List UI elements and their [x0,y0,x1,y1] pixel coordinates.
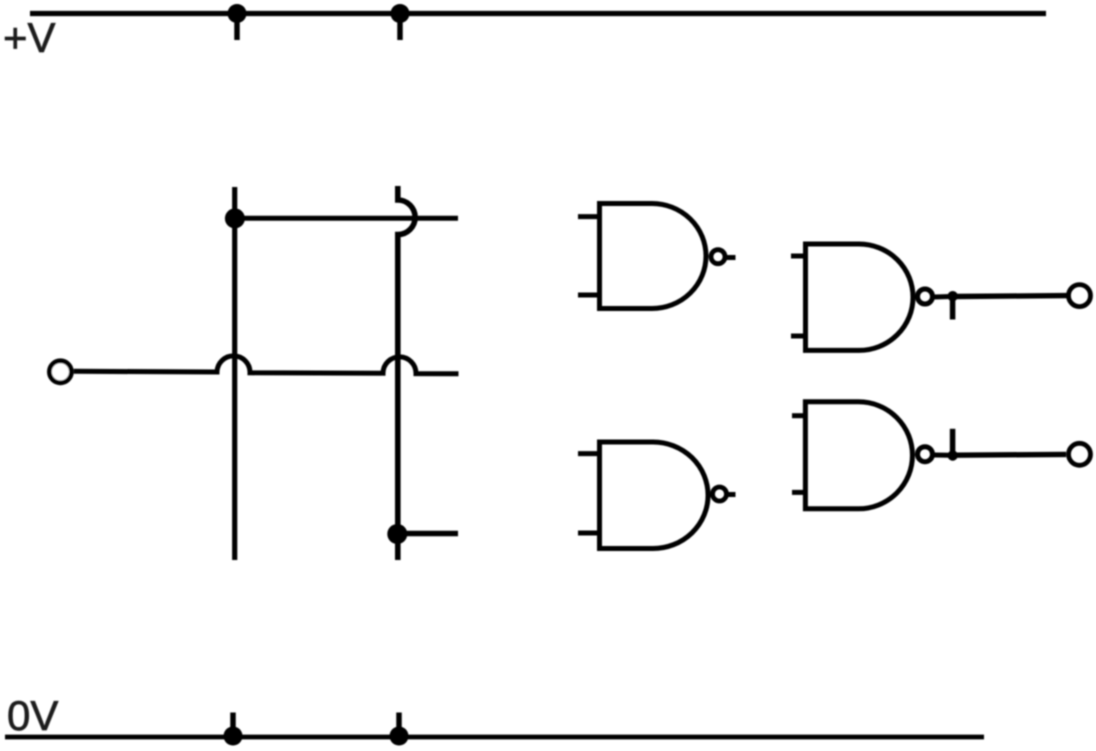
svg-text:+V: +V [3,14,56,61]
svg-text:0V: 0V [7,692,58,739]
